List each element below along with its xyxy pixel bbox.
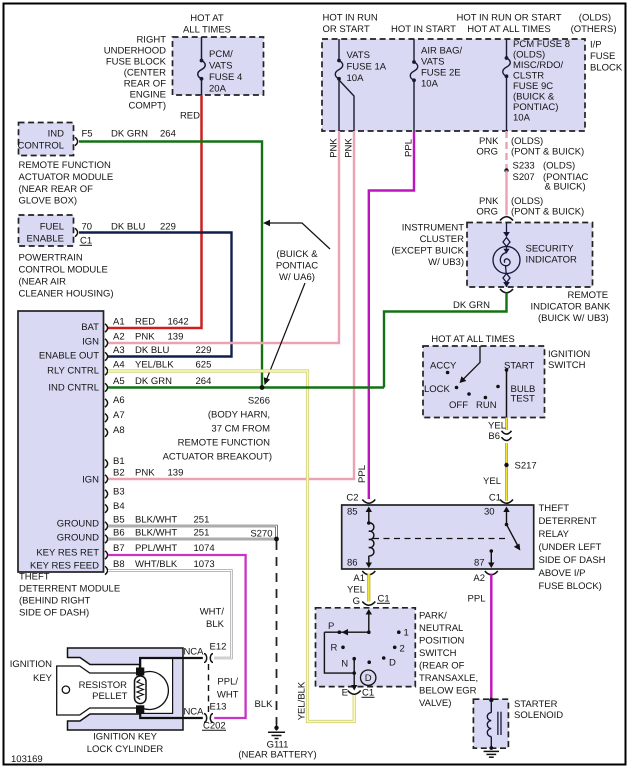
svg-text:10A: 10A	[513, 113, 531, 124]
svg-text:20A: 20A	[209, 84, 227, 95]
svg-text:TRANSAXLE,: TRANSAXLE,	[419, 673, 478, 684]
svg-text:70: 70	[82, 222, 93, 233]
svg-text:E: E	[342, 688, 348, 699]
svg-text:229: 229	[160, 222, 176, 233]
svg-text:(CENTER: (CENTER	[124, 68, 166, 79]
connector G smile	[362, 602, 375, 606]
svg-text:N: N	[341, 659, 348, 670]
svg-text:CONTROL: CONTROL	[18, 141, 64, 152]
svg-text:NCA: NCA	[183, 707, 204, 718]
svg-text:A2: A2	[473, 573, 485, 584]
svg-text:SOLENOID: SOLENOID	[514, 710, 563, 721]
svg-text:RIGHT: RIGHT	[136, 35, 166, 46]
svg-text:AIR BAG/: AIR BAG/	[421, 46, 463, 57]
svg-text:S233: S233	[513, 161, 535, 172]
svg-text:ABOVE I/P: ABOVE I/P	[539, 568, 586, 579]
svg-text:DK GRN: DK GRN	[111, 129, 148, 140]
svg-text:103169: 103169	[11, 754, 43, 765]
wire DK GRN 264: F5 to S266	[79, 142, 262, 388]
svg-text:ACTUATOR MODULE: ACTUATOR MODULE	[19, 172, 114, 183]
svg-text:A2: A2	[113, 332, 125, 343]
solenoid box	[473, 699, 508, 748]
PNP position dots	[338, 630, 342, 634]
svg-text:PARK/: PARK/	[419, 611, 447, 622]
svg-text:ALL TIMES: ALL TIMES	[183, 25, 231, 36]
svg-text:264: 264	[160, 129, 176, 140]
svg-text:B8: B8	[113, 559, 125, 570]
svg-text:BLK: BLK	[255, 699, 274, 710]
svg-text:SIDE OF DASH): SIDE OF DASH)	[19, 608, 89, 619]
connector E smile	[348, 691, 361, 695]
svg-text:A4: A4	[113, 360, 125, 371]
fuse VATS FUSE 1A 10A	[335, 39, 354, 131]
svg-text:YEL: YEL	[483, 476, 501, 487]
svg-text:PONTIAC: PONTIAC	[276, 261, 318, 272]
svg-text:GROUND: GROUND	[57, 519, 99, 530]
svg-text:CLSTR: CLSTR	[513, 71, 544, 82]
svg-text:B5: B5	[113, 515, 125, 526]
svg-text:PCM FUSE 8: PCM FUSE 8	[513, 39, 570, 50]
svg-text:PONTIAC): PONTIAC)	[513, 102, 558, 113]
svg-text:A1: A1	[353, 573, 365, 584]
svg-text:HOT AT ALL TIMES: HOT AT ALL TIMES	[431, 334, 514, 345]
svg-text:RUN: RUN	[476, 400, 497, 411]
svg-text:IGNITION KEY: IGNITION KEY	[93, 732, 158, 743]
ground at solenoid	[489, 746, 493, 750]
svg-text:DK BLU: DK BLU	[135, 345, 169, 356]
splice S233/S207	[504, 168, 508, 172]
svg-text:PNK: PNK	[479, 196, 499, 207]
svg-text:REMOTE: REMOTE	[568, 290, 609, 301]
svg-text:SWITCH: SWITCH	[419, 648, 457, 659]
PNP feed arrow from G	[368, 612, 370, 632]
switch: ignition switch box	[423, 346, 545, 418]
svg-text:UNDERHOOD: UNDERHOOD	[104, 46, 166, 57]
module: instrument cluster box	[467, 223, 593, 288]
svg-text:BLK/WHT: BLK/WHT	[135, 515, 177, 526]
svg-text:REAR OF: REAR OF	[124, 79, 166, 90]
svg-text:CLEANER HOUSING): CLEANER HOUSING)	[19, 289, 114, 300]
svg-text:DETERRENT: DETERRENT	[539, 516, 597, 527]
pin connectors A1-A8 B1-B8	[105, 324, 108, 575]
svg-text:HOT IN RUN OR START: HOT IN RUN OR START	[456, 13, 561, 24]
relay pin 30 arrow	[506, 510, 508, 525]
switch contacts (dots)	[446, 371, 450, 375]
contact housing box	[140, 658, 173, 714]
svg-text:RLY CNTRL: RLY CNTRL	[47, 366, 99, 377]
relay pin 86 arrow	[368, 556, 370, 563]
svg-text:I/P: I/P	[590, 40, 602, 51]
svg-text:ENGINE: ENGINE	[130, 90, 166, 101]
splice S217	[504, 463, 508, 467]
svg-text:DK GRN: DK GRN	[135, 376, 172, 387]
connector C1 smile	[500, 500, 513, 504]
svg-text:FUSE: FUSE	[590, 51, 615, 62]
svg-text:1073: 1073	[194, 559, 215, 570]
connector A2 smile	[485, 571, 498, 575]
svg-text:TEST: TEST	[511, 394, 535, 405]
svg-text:COMPT): COMPT)	[129, 101, 166, 112]
svg-text:POWERTRAIN: POWERTRAIN	[19, 253, 83, 264]
svg-text:30: 30	[484, 507, 495, 518]
svg-text:S207: S207	[513, 172, 535, 183]
svg-text:IGN: IGN	[82, 337, 99, 348]
connector E13 pair	[204, 714, 213, 723]
svg-text:PELLET: PELLET	[92, 691, 128, 702]
svg-text:MISC/RDO/: MISC/RDO/	[513, 60, 564, 71]
svg-text:(REAR OF: (REAR OF	[419, 661, 465, 672]
svg-text:251: 251	[194, 528, 210, 539]
svg-text:(BUICK &: (BUICK &	[513, 92, 555, 103]
svg-text:(OLDS): (OLDS)	[543, 161, 575, 172]
connector E12 pair	[204, 654, 213, 663]
svg-text:PNK: PNK	[479, 136, 499, 147]
splice S270	[274, 537, 279, 542]
svg-text:RED: RED	[180, 111, 200, 122]
wire PPL: relay A2/87 to starter solenoid	[490, 574, 492, 701]
svg-text:(BUICK &: (BUICK &	[276, 249, 318, 260]
svg-text:WHT: WHT	[217, 690, 239, 701]
wire inside switch: START to bottom	[506, 370, 508, 418]
svg-text:E13: E13	[210, 702, 227, 713]
svg-text:RED: RED	[135, 317, 155, 328]
svg-text:VATS: VATS	[421, 57, 444, 68]
leader arrow to S266	[266, 283, 305, 381]
svg-text:FUSE 9C: FUSE 9C	[513, 81, 553, 92]
svg-text:A7: A7	[113, 410, 125, 421]
svg-text:RELAY: RELAY	[539, 529, 570, 540]
svg-text:W/ UA6): W/ UA6)	[279, 272, 315, 283]
svg-text:139: 139	[168, 468, 184, 479]
svg-text:YEL: YEL	[347, 585, 365, 596]
svg-text:SECURITY: SECURITY	[526, 244, 575, 255]
svg-text:10A: 10A	[421, 79, 439, 90]
svg-text:10A: 10A	[347, 73, 365, 84]
svg-text:625: 625	[196, 360, 212, 371]
wire PPL/WHT 1074: B7 to E13	[108, 555, 246, 718]
wire PPL: fuse 2E to relay pin 85	[369, 131, 414, 499]
svg-text:F5: F5	[82, 129, 93, 140]
svg-text:C1: C1	[489, 493, 501, 504]
svg-text:KEY RES RET: KEY RES RET	[36, 548, 99, 559]
svg-text:HOT AT ALL TIMES: HOT AT ALL TIMES	[467, 24, 550, 35]
connector below cluster (smile arc)	[500, 289, 513, 293]
wire PNK/ORG: S233 to instrument cluster	[505, 171, 507, 216]
svg-text:VATS: VATS	[347, 50, 370, 61]
svg-text:A3: A3	[113, 345, 125, 356]
svg-text:B3: B3	[113, 487, 125, 498]
svg-text:87: 87	[474, 558, 485, 569]
svg-text:OFF: OFF	[449, 400, 468, 411]
svg-text:FUSE 1A: FUSE 1A	[347, 62, 387, 73]
fuse F4 PCM/VATS FUSE 4 20A	[198, 37, 206, 95]
svg-text:A1: A1	[113, 317, 125, 328]
svg-text:ORG: ORG	[476, 207, 498, 218]
svg-text:GLOVE BOX): GLOVE BOX)	[19, 196, 78, 207]
svg-text:FUSE 4: FUSE 4	[209, 72, 242, 83]
pin 70 connector	[75, 228, 78, 236]
svg-text:E12: E12	[210, 642, 227, 653]
svg-text:1074: 1074	[194, 543, 215, 554]
svg-text:(EXCEPT BUICK: (EXCEPT BUICK	[391, 246, 464, 257]
PNP selector arm with arrow to P	[324, 631, 368, 633]
svg-text:(OLDS): (OLDS)	[513, 50, 545, 61]
svg-text:(NEAR BATTERY): (NEAR BATTERY)	[238, 750, 316, 761]
svg-text:(NEAR REAR OF: (NEAR REAR OF	[19, 184, 94, 195]
svg-text:(PONT & BUICK): (PONT & BUICK)	[511, 147, 584, 158]
svg-text:PPL/WHT: PPL/WHT	[135, 543, 177, 554]
relay box	[342, 505, 534, 569]
fuse AIR BAG/VATS FUSE 2E 10A	[410, 39, 418, 131]
fuse block: I/P fuse block box	[322, 39, 585, 131]
svg-text:REMOTE FUNCTION: REMOTE FUNCTION	[19, 160, 111, 171]
svg-text:A5: A5	[113, 376, 125, 387]
fuse block U: right underhood fuse block box	[173, 37, 264, 95]
contact pad bottom	[136, 705, 144, 713]
wire PNK/ORG (dashed): fuse 8/9C to S233	[505, 131, 507, 169]
svg-text:HOT IN START: HOT IN START	[391, 24, 456, 35]
wire key E12 (top contact)	[140, 658, 203, 668]
svg-text:VATS: VATS	[209, 61, 232, 72]
svg-text:B2: B2	[113, 468, 125, 479]
svg-text:DK GRN: DK GRN	[453, 300, 490, 311]
svg-text:229: 229	[196, 345, 212, 356]
svg-text:A8: A8	[113, 425, 125, 436]
svg-text:KEY: KEY	[33, 673, 53, 684]
svg-text:(BEHIND RIGHT: (BEHIND RIGHT	[19, 596, 90, 607]
wire DK GRN 264: A5 to S266 to cluster	[108, 386, 384, 388]
svg-text:DETERRENT MODULE: DETERRENT MODULE	[19, 584, 120, 595]
wire YEL: B6 to relay pin 30	[505, 443, 508, 501]
svg-text:GROUND: GROUND	[57, 533, 99, 544]
svg-text:B1: B1	[113, 456, 125, 467]
module: theft deterrent module box	[18, 311, 104, 572]
svg-text:YEL/BLK: YEL/BLK	[135, 360, 174, 371]
connector B6 (double smile)	[502, 431, 512, 441]
relay pin 87 arrow	[490, 549, 494, 553]
connector A1 smile	[362, 571, 375, 575]
svg-text:ACTUATOR BREAKOUT): ACTUATOR BREAKOUT)	[163, 452, 272, 463]
relay dashed actuation line	[373, 538, 507, 540]
wire DK GRN: cluster to S266	[384, 293, 507, 388]
svg-text:SWITCH: SWITCH	[548, 360, 586, 371]
svg-text:INDICATOR: INDICATOR	[526, 255, 578, 266]
relay switch arm (open)	[505, 523, 509, 527]
leader arrow to DK GRN wire	[266, 223, 330, 249]
svg-text:(OTHERS): (OTHERS)	[571, 24, 617, 35]
svg-text:IND CNTRL: IND CNTRL	[48, 383, 99, 394]
svg-text:264: 264	[196, 376, 212, 387]
svg-text:S266: S266	[248, 396, 270, 407]
svg-text:BELOW EGR: BELOW EGR	[419, 686, 477, 697]
label D circled	[361, 670, 376, 685]
svg-text:PNK: PNK	[135, 468, 155, 479]
wire DK BLU 229: pin 70 to module pin A3	[79, 233, 232, 357]
svg-text:D: D	[365, 673, 372, 684]
ignition key	[57, 666, 169, 715]
svg-text:FUSE BLOCK): FUSE BLOCK)	[539, 581, 602, 592]
wire BLK/WHT 251: B6 to S270	[108, 538, 277, 541]
svg-text:B6: B6	[113, 528, 125, 539]
svg-text:2: 2	[400, 644, 405, 655]
svg-text:OR START: OR START	[323, 24, 370, 35]
svg-text:R: R	[331, 643, 338, 654]
wire PNK 139: fuse 1A to module pin A2	[108, 131, 339, 343]
svg-text:S217: S217	[515, 461, 537, 472]
fuse PCM FUSE 8 / FUSE 9C	[503, 39, 511, 131]
svg-text:ACCY: ACCY	[430, 361, 457, 372]
svg-text:VALVE): VALVE)	[419, 698, 451, 709]
svg-text:139: 139	[168, 332, 184, 343]
svg-text:THEFT: THEFT	[19, 572, 50, 583]
svg-text:B4: B4	[113, 501, 125, 512]
svg-text:IGNITION: IGNITION	[548, 349, 590, 360]
svg-text:YEL: YEL	[488, 421, 506, 432]
svg-text:BAT: BAT	[81, 322, 99, 333]
svg-text:251: 251	[194, 515, 210, 526]
svg-text:REMOTE FUNCTION: REMOTE FUNCTION	[178, 438, 270, 449]
wire YEL: ignition switch to B6 connector	[505, 418, 508, 431]
svg-text:ENABLE OUT: ENABLE OUT	[39, 351, 99, 362]
junction dot on PPL at solenoid	[489, 698, 493, 702]
relay coil	[369, 523, 374, 556]
svg-text:RESISTOR: RESISTOR	[79, 680, 128, 691]
svg-text:BLOCK: BLOCK	[590, 63, 623, 74]
wire BLK/WHT 251: B5 to S270	[108, 526, 277, 539]
svg-text:& BUICK): & BUICK)	[545, 182, 586, 193]
svg-text:(PONT & BUICK): (PONT & BUICK)	[511, 207, 584, 218]
module: remote function actuator module	[19, 123, 74, 156]
resistor pellet	[135, 676, 147, 704]
wire YEL/BLK 625: A4 to PNP switch E	[108, 371, 354, 722]
module: powertrain control module	[19, 215, 74, 246]
svg-text:IGNITION: IGNITION	[10, 659, 52, 670]
svg-text:1: 1	[404, 628, 409, 639]
svg-text:ORG: ORG	[476, 147, 498, 158]
svg-text:B7: B7	[113, 543, 125, 554]
svg-text:IGN: IGN	[82, 475, 99, 486]
indicator lamp: security indicator	[493, 223, 520, 288]
wire RED 1642: fuse 4 to module pin A1	[108, 95, 202, 328]
svg-text:(UNDER LEFT: (UNDER LEFT	[539, 542, 602, 553]
svg-text:(OLDS): (OLDS)	[511, 196, 543, 207]
svg-text:NCA: NCA	[183, 647, 204, 658]
svg-text:PCM/: PCM/	[209, 49, 233, 60]
splice S266	[260, 385, 265, 390]
wire WHT/BLK 1073: B8 to E12	[108, 571, 232, 659]
svg-text:POSITION: POSITION	[419, 636, 465, 647]
svg-text:BLK/WHT: BLK/WHT	[135, 528, 177, 539]
svg-text:A6: A6	[113, 395, 125, 406]
svg-text:1642: 1642	[168, 317, 189, 328]
svg-text:WHT/BLK: WHT/BLK	[135, 559, 178, 570]
svg-text:FUSE 2E: FUSE 2E	[421, 68, 461, 79]
PNP output to E	[353, 659, 355, 687]
svg-text:(BODY HARN,: (BODY HARN,	[208, 410, 270, 421]
svg-text:DK BLU: DK BLU	[111, 222, 145, 233]
svg-text:PNK: PNK	[135, 332, 155, 343]
svg-text:INSTRUMENT: INSTRUMENT	[402, 223, 464, 234]
svg-text:G: G	[353, 596, 360, 607]
svg-text:LOCK CYLINDER: LOCK CYLINDER	[87, 744, 164, 755]
solenoid coil	[490, 700, 492, 713]
wire BLK (dashed): S270 to ground G111	[276, 541, 278, 724]
svg-text:NEUTRAL: NEUTRAL	[419, 623, 463, 634]
ground symbol G111	[274, 726, 278, 730]
svg-text:WHT/: WHT/	[200, 607, 225, 618]
connector into cluster (frown arc)	[500, 217, 513, 221]
connector C2 smile	[362, 500, 375, 504]
relay pin 85 arrow	[368, 510, 370, 524]
svg-text:SIDE OF DASH: SIDE OF DASH	[539, 555, 606, 566]
svg-text:85: 85	[347, 507, 358, 518]
svg-text:86: 86	[347, 558, 358, 569]
svg-text:CLUSTER: CLUSTER	[420, 234, 464, 245]
switch: PNP box	[316, 608, 416, 687]
svg-text:(NEAR AIR: (NEAR AIR	[19, 277, 67, 288]
key hole	[62, 686, 69, 693]
pin F5 connector	[75, 137, 78, 145]
svg-text:(OLDS): (OLDS)	[511, 136, 543, 147]
svg-text:PPL: PPL	[357, 465, 368, 483]
lock cylinder body	[68, 648, 184, 730]
svg-text:INDICATOR BANK: INDICATOR BANK	[531, 302, 612, 313]
svg-text:THEFT: THEFT	[539, 503, 570, 514]
connector C202 dashed line	[208, 664, 210, 712]
svg-text:FUEL: FUEL	[40, 222, 64, 233]
svg-text:W/ UB3): W/ UB3)	[428, 257, 464, 268]
svg-text:CONTROL MODULE: CONTROL MODULE	[19, 265, 108, 276]
svg-text:37 CM FROM: 37 CM FROM	[211, 424, 270, 435]
svg-text:C2: C2	[346, 493, 358, 504]
svg-text:PPL: PPL	[468, 594, 486, 605]
svg-text:LOCK: LOCK	[424, 384, 451, 395]
svg-text:HOT IN RUN: HOT IN RUN	[323, 13, 378, 24]
wire YEL: relay A1 to PNP G	[367, 574, 370, 602]
svg-text:D: D	[389, 658, 396, 669]
svg-text:YEL/BLK: YEL/BLK	[297, 681, 308, 720]
svg-text:HOT AT: HOT AT	[190, 13, 224, 24]
svg-text:P: P	[328, 621, 334, 632]
svg-text:ENABLE: ENABLE	[27, 234, 65, 245]
svg-text:IND: IND	[48, 129, 65, 140]
svg-text:START: START	[504, 361, 534, 372]
svg-text:KEY RES FEED: KEY RES FEED	[30, 561, 99, 572]
switch arm to LOCK	[462, 346, 480, 381]
contact pad top	[136, 668, 144, 676]
svg-text:(OLDS): (OLDS)	[579, 13, 611, 24]
svg-text:B6: B6	[488, 431, 500, 442]
wire key E13 (bottom contact)	[140, 713, 203, 718]
svg-text:PPL/: PPL/	[217, 677, 238, 688]
svg-text:FUSE BLOCK: FUSE BLOCK	[106, 57, 167, 68]
svg-text:(BUICK W/ UB3): (BUICK W/ UB3)	[538, 313, 609, 324]
wire PNK 139: fuse 1A to module pin B2	[108, 131, 354, 479]
svg-text:BLK: BLK	[206, 619, 225, 630]
svg-text:STARTER: STARTER	[514, 699, 558, 710]
